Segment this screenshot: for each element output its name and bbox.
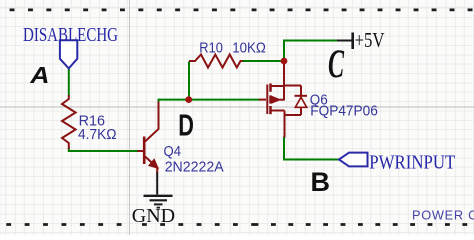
- svg-text:D: D: [178, 108, 194, 143]
- svg-text:C: C: [328, 43, 345, 87]
- svg-text:R10: R10: [199, 41, 223, 57]
- svg-text:DISABLECHG: DISABLECHG: [23, 25, 118, 46]
- svg-text:10KΩ: 10KΩ: [232, 41, 266, 57]
- svg-text:PWRINPUT: PWRINPUT: [369, 152, 455, 174]
- svg-text:A: A: [29, 64, 49, 89]
- svg-text:GND: GND: [132, 205, 175, 227]
- svg-text:Q4: Q4: [164, 144, 182, 160]
- svg-text:FQP47P06: FQP47P06: [310, 104, 378, 120]
- svg-text:+5V: +5V: [355, 28, 385, 52]
- svg-text:B: B: [311, 167, 331, 197]
- svg-text:POWER CONTROL: POWER CONTROL: [412, 208, 474, 223]
- svg-text:4.7KΩ: 4.7KΩ: [78, 127, 117, 143]
- svg-text:2N2222A: 2N2222A: [165, 160, 224, 176]
